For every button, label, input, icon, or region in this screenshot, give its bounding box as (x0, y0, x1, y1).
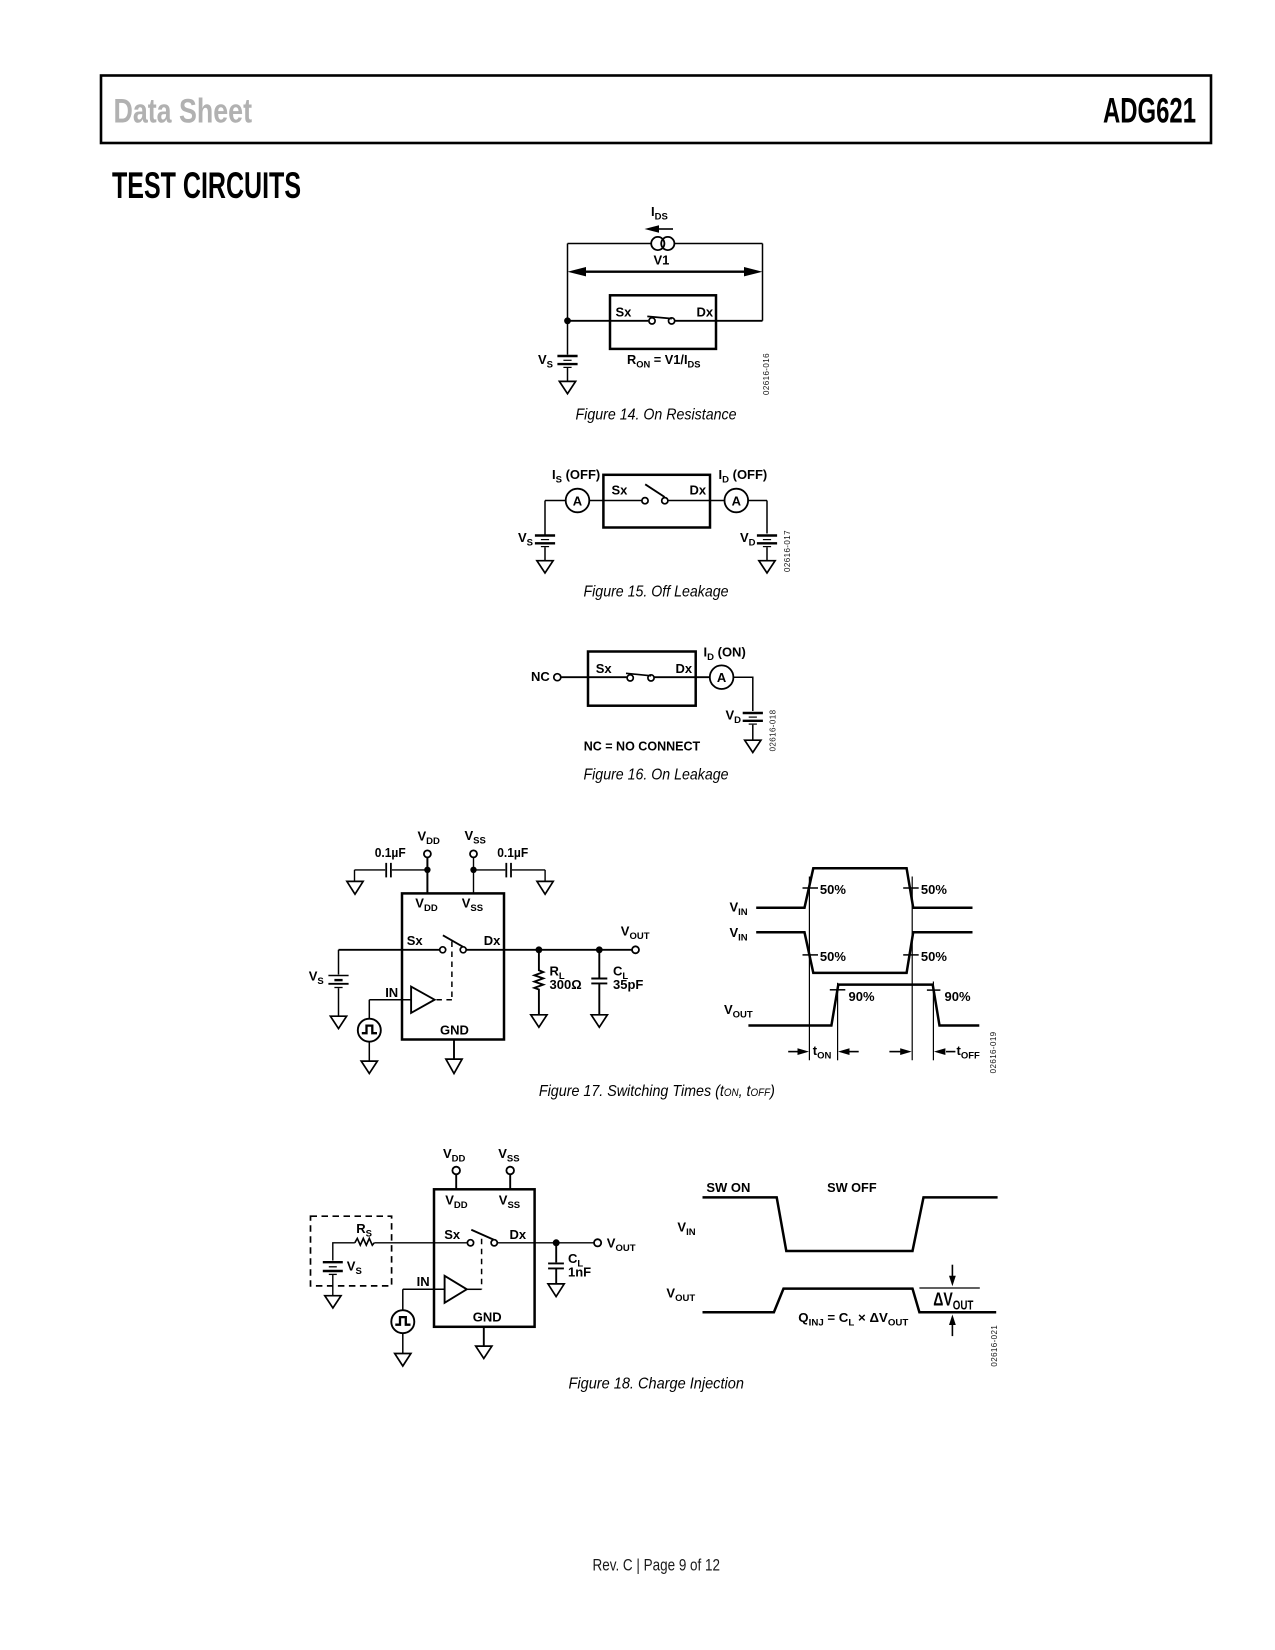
svg-text:Dx: Dx (697, 305, 714, 320)
driver triangle (411, 987, 435, 1013)
switch lever (closed) (626, 673, 651, 676)
switch box (610, 295, 716, 349)
svg-text:A: A (717, 670, 727, 685)
measurement arrow V1 (584, 271, 746, 273)
arrow IDS direction (658, 228, 673, 230)
battery VD (757, 534, 777, 536)
resistor RL (534, 950, 543, 1015)
ammeter A right (725, 489, 749, 513)
ground left (537, 561, 553, 573)
terminal VSS (470, 850, 477, 857)
ground GND (446, 1059, 462, 1073)
svg-text:Dx: Dx (510, 1227, 527, 1242)
ground (559, 381, 575, 393)
svg-text:Figure 18. Charge Injection: Figure 18. Charge Injection (569, 1375, 744, 1392)
svg-text:A: A (732, 493, 742, 508)
wire right (668, 501, 767, 534)
battery VD (743, 712, 763, 714)
arrow tON right (849, 1051, 859, 1053)
wire battery to ground (567, 368, 569, 381)
svg-text:IN: IN (385, 985, 398, 1000)
wire right decoupling (474, 870, 546, 881)
wire switch to ammeter (655, 676, 710, 678)
wire GND stub (483, 1327, 485, 1346)
arrow up dVOUT (951, 1323, 953, 1336)
svg-text:02616-019: 02616-019 (989, 1031, 998, 1073)
node VSS junction (470, 867, 476, 873)
svg-text:V1: V1 (654, 253, 670, 268)
svg-text:Sx: Sx (612, 482, 629, 497)
terminal VSS (506, 1167, 514, 1175)
svg-text:50%: 50% (921, 949, 947, 964)
measure line tON start (808, 877, 810, 1061)
ammeter A left (566, 489, 590, 513)
svg-text:02616-016: 02616-016 (762, 353, 771, 395)
wire NC to switch (561, 676, 626, 678)
svg-text:02616-021: 02616-021 (990, 1325, 999, 1367)
wire main horizontal (568, 320, 763, 322)
battery VS (323, 1261, 343, 1263)
switch lever (open) (471, 1230, 494, 1240)
wire Dx to VOUT (497, 1242, 594, 1244)
svg-text:Data Sheet: Data Sheet (114, 93, 253, 131)
node junction CL (553, 1239, 560, 1246)
ground VS (325, 1296, 341, 1308)
ground (745, 740, 761, 752)
arrow down dVOUT (951, 1265, 953, 1278)
wire VSS stub (509, 1174, 511, 1189)
svg-text:0.1µF: 0.1µF (497, 845, 528, 860)
wire IN (369, 1000, 411, 1019)
switch contacts (642, 498, 648, 504)
svg-text:50%: 50% (921, 882, 947, 897)
svg-text:IN: IN (417, 1274, 430, 1289)
wire driver to dashed (467, 1288, 482, 1290)
terminal VDD (452, 1167, 460, 1175)
tick 50% top left (803, 887, 819, 889)
svg-text:02616-017: 02616-017 (783, 530, 792, 572)
device box (434, 1189, 535, 1327)
svg-text:90%: 90% (945, 989, 971, 1004)
switch contacts (649, 318, 655, 324)
wire IN (403, 1289, 445, 1310)
switch box (588, 652, 696, 706)
ground CL (591, 1015, 607, 1027)
wire battery to ground (332, 1275, 334, 1296)
svg-text:Rev. C | Page 9 of 12: Rev. C | Page 9 of 12 (593, 1556, 721, 1575)
wire ammeter to VD (733, 677, 752, 711)
arrow tOFF left (889, 1051, 900, 1053)
wire top loop (568, 244, 763, 321)
battery VS (567, 321, 569, 355)
ground pulse (395, 1354, 411, 1367)
arrow tON left (788, 1051, 798, 1053)
tick 50% bottom left (803, 954, 819, 956)
capacitor 0.1uF left (386, 863, 391, 878)
svg-text:Dx: Dx (676, 661, 693, 676)
svg-text:Sx: Sx (407, 933, 424, 948)
svg-text:Figure 17. Switching Times (tO: Figure 17. Switching Times (tON, tOFF) (539, 1083, 775, 1100)
waveform VIN rising pulse (756, 868, 972, 908)
svg-text:50%: 50% (820, 882, 846, 897)
svg-text:0.1µF: 0.1µF (375, 845, 406, 860)
node junction RL (536, 946, 543, 953)
svg-text:02616-018: 02616-018 (769, 709, 778, 751)
node junction (564, 317, 571, 324)
switch contacts (627, 675, 633, 681)
waveform VOUT (748, 985, 979, 1026)
pulse generator (358, 1019, 381, 1042)
wire GND stub (453, 1040, 455, 1059)
battery VS (535, 534, 555, 536)
svg-text:ADG621: ADG621 (1103, 91, 1196, 131)
ground CL (548, 1284, 564, 1297)
wire left decoupling (355, 870, 428, 881)
terminal VDD (424, 850, 431, 857)
dashed control line (481, 1239, 483, 1290)
measure line tON end (837, 983, 839, 1061)
terminal VOUT (594, 1239, 601, 1246)
wire left down (544, 501, 546, 536)
svg-text:SW ON: SW ON (706, 1180, 750, 1195)
svg-text:Dx: Dx (484, 933, 501, 948)
svg-text:SW OFF: SW OFF (827, 1180, 877, 1195)
switch contacts (467, 1240, 473, 1246)
node junction CL (596, 946, 603, 953)
header box (101, 76, 1211, 144)
current source V1 (two circles) (651, 237, 664, 250)
svg-text:50%: 50% (820, 949, 846, 964)
driver triangle (445, 1276, 467, 1303)
wire to ground left (544, 547, 546, 560)
tick 50% bottom right (903, 954, 919, 956)
terminal VOUT (632, 946, 639, 953)
reference line dVOUT (919, 1287, 979, 1289)
wire VSS stub (473, 858, 475, 894)
wire VS to resistor (333, 1243, 468, 1261)
pulse generator (391, 1310, 414, 1333)
wire battery to ground (338, 988, 340, 1016)
svg-text:Sx: Sx (444, 1227, 461, 1242)
capacitor 0.1uF right (506, 863, 511, 878)
svg-text:NC = NO CONNECT: NC = NO CONNECT (584, 739, 701, 754)
tick 90% left (830, 989, 846, 991)
switch lever (open) (443, 935, 463, 947)
svg-text:Figure 15. Off Leakage: Figure 15. Off Leakage (584, 584, 729, 601)
ground VS (330, 1016, 346, 1028)
ground left decoupling (347, 881, 363, 894)
ground pulse (361, 1061, 377, 1073)
wire pulse to ground (368, 1042, 370, 1061)
switch lever (open) (645, 484, 664, 497)
tick 50% top right (903, 887, 919, 889)
battery VS (338, 950, 340, 975)
svg-text:Sx: Sx (616, 305, 633, 320)
wire battery to ground (752, 725, 754, 740)
svg-text:A: A (573, 493, 583, 508)
svg-text:1nF: 1nF (568, 1265, 591, 1280)
switch lever (closed) (647, 316, 672, 318)
wire pulse to ground (402, 1333, 404, 1353)
wire left (545, 500, 642, 502)
wire VDD stub (455, 1174, 457, 1189)
svg-text:Figure 14. On Resistance: Figure 14. On Resistance (576, 407, 737, 424)
wire main (339, 949, 633, 951)
svg-text:300Ω: 300Ω (550, 977, 582, 992)
svg-text:Dx: Dx (690, 482, 707, 497)
svg-text:GND: GND (440, 1023, 469, 1038)
arrow tOFF right (946, 1051, 955, 1053)
dashed control line (437, 942, 452, 1000)
svg-text:GND: GND (473, 1309, 502, 1324)
switch contacts (440, 947, 446, 953)
svg-text:35pF: 35pF (613, 977, 643, 992)
capacitor CL (548, 1243, 564, 1284)
source dashed box (311, 1216, 392, 1286)
waveform VOUT (703, 1289, 997, 1313)
terminal NC (554, 674, 561, 681)
wire VDD stub (426, 858, 428, 894)
waveform VIN falling pulse (756, 932, 972, 973)
capacitor CL (591, 950, 607, 1015)
measure line tOFF end (932, 982, 934, 1061)
switch box (603, 475, 710, 528)
waveform VIN (703, 1197, 998, 1251)
ground right (759, 561, 775, 573)
wire to ground right (766, 547, 768, 560)
svg-text:Sx: Sx (596, 661, 613, 676)
svg-text:Figure 16. On Leakage: Figure 16. On Leakage (584, 767, 729, 784)
svg-text:TEST CIRCUITS: TEST CIRCUITS (112, 165, 301, 206)
ground RL (531, 1015, 547, 1027)
ground right decoupling (537, 881, 553, 894)
svg-text:NC: NC (531, 669, 550, 684)
resistor RS (355, 1238, 375, 1245)
svg-text:90%: 90% (849, 989, 875, 1004)
tick 90% right (927, 989, 941, 991)
device box (402, 893, 504, 1039)
ammeter A (710, 665, 734, 689)
ground GND (476, 1346, 492, 1358)
measure line tOFF start (911, 877, 913, 1061)
node VDD junction (424, 867, 430, 873)
